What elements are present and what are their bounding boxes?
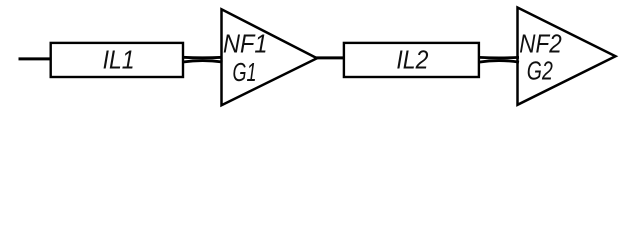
op-amp amplifier A2 <box>518 8 616 105</box>
svg-text:G2: G2 <box>527 56 553 86</box>
wire W4 lower (IL2 to amplifier A2) <box>479 61 519 63</box>
attenuator block IL1 <box>51 43 183 77</box>
svg-text:IL1: IL1 <box>103 45 135 75</box>
wire W2 lower (IL1 to amplifier A1) <box>183 61 223 63</box>
svg-text:G1: G1 <box>233 57 257 87</box>
svg-text:NF2: NF2 <box>519 28 562 58</box>
op-amp amplifier A1 <box>222 9 318 105</box>
wire W4 upper (IL2 to amplifier A2) <box>479 56 519 59</box>
wire W1 (input lead) <box>19 57 52 60</box>
svg-text:IL2: IL2 <box>396 45 428 75</box>
wire W2 upper (IL1 to amplifier A1) <box>183 56 223 59</box>
svg-text:NF1: NF1 <box>223 28 268 58</box>
wire W3 (A1 output to IL2) <box>315 56 345 59</box>
attenuator block IL2 <box>344 43 479 77</box>
